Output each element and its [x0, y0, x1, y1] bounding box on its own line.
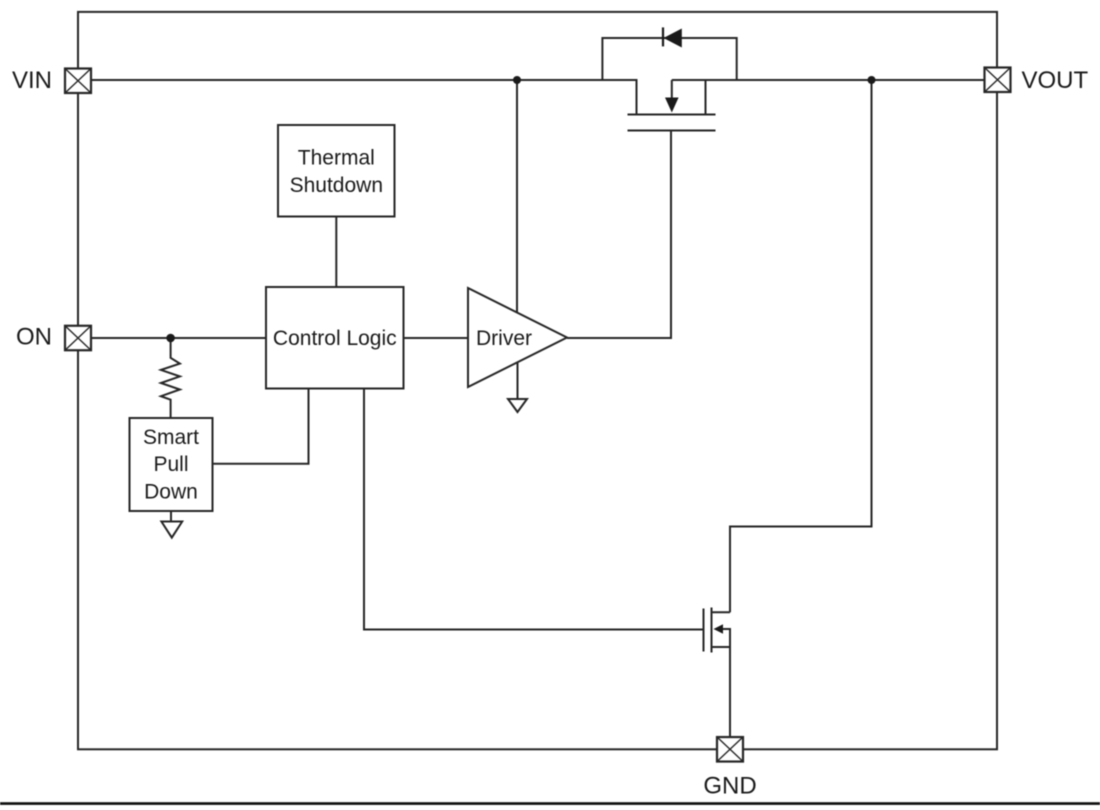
svg-text:Driver: Driver — [476, 327, 532, 350]
svg-text:Down: Down — [144, 481, 198, 504]
svg-text:VOUT: VOUT — [1022, 67, 1089, 94]
svg-text:Smart: Smart — [143, 426, 199, 449]
svg-text:ON: ON — [16, 324, 52, 351]
svg-text:Control Logic: Control Logic — [273, 327, 397, 350]
svg-text:GND: GND — [703, 773, 756, 800]
svg-text:VIN: VIN — [12, 67, 52, 94]
svg-text:Pull: Pull — [153, 453, 188, 476]
svg-text:Shutdown: Shutdown — [290, 174, 383, 197]
svg-text:Thermal: Thermal — [298, 147, 375, 170]
